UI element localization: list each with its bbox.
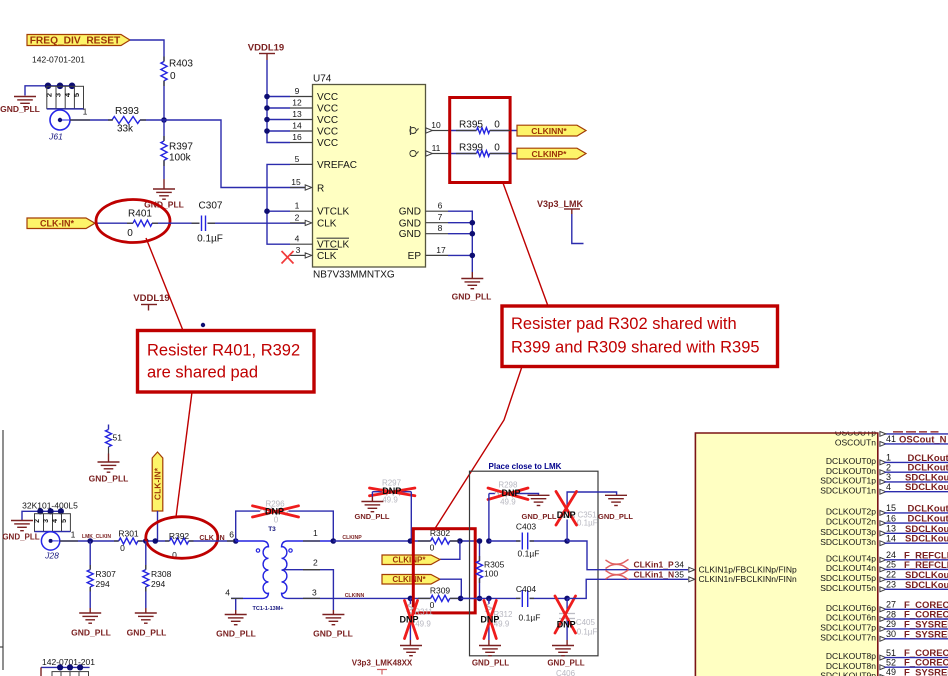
leader line right textbox to R302 rect <box>435 367 522 529</box>
wire R298 left down to CLKINP <box>488 494 490 542</box>
annotation rect around R302 R309 <box>413 529 475 613</box>
svg-text:DNP: DNP <box>399 615 418 625</box>
svg-text:GND_PLL: GND_PLL <box>598 512 633 521</box>
flag CLKINN* <box>517 125 586 136</box>
svg-text:17: 17 <box>436 245 446 255</box>
wire CLK-IN* flag down <box>157 511 159 541</box>
flag FREQ_DIV_RESET <box>27 35 130 47</box>
svg-text:41: 41 <box>886 434 896 444</box>
wire T3 pin4 to ground <box>235 598 237 614</box>
svg-text:16: 16 <box>292 132 302 142</box>
wire R403 to junction <box>163 81 165 120</box>
svg-text:SDCLKOUT3p: SDCLKOUT3p <box>820 527 876 537</box>
resistor R312 DNP <box>486 598 513 640</box>
svg-text:0: 0 <box>494 143 500 154</box>
capacitor C403 <box>489 522 567 559</box>
IC U75 LMK body <box>695 433 877 676</box>
LMK pin 2 DCLKOUT0n <box>826 463 948 476</box>
resistor 51 (cut at top) <box>106 425 123 447</box>
LMK pin 25 DCLKOUT4n <box>826 560 948 573</box>
svg-text:SDCLKOUT1n: SDCLKOUT1n <box>820 485 876 495</box>
node T3 pin1 junction <box>331 538 337 544</box>
wire R393 to junction <box>140 119 164 121</box>
svg-text:VCC: VCC <box>317 115 338 126</box>
svg-text:DNP: DNP <box>557 510 576 520</box>
net label LMK_CLKIN <box>82 534 111 540</box>
svg-text:SDCLKOUT7n: SDCLKOUT7n <box>820 632 876 642</box>
svg-text:DCLKOUT6p: DCLKOUT6p <box>826 603 876 613</box>
T3 pin number labels <box>225 528 318 598</box>
wire T3 pin2 to ground <box>283 570 333 615</box>
svg-text:CLKINN*: CLKINN* <box>531 126 567 136</box>
connector 32K101-400L5 label <box>22 501 78 511</box>
svg-text:10: 10 <box>431 120 441 130</box>
LMK pin 35 CLKIN1n <box>689 574 797 584</box>
svg-text:15: 15 <box>291 177 301 187</box>
X-out R297 <box>370 488 415 496</box>
svg-text:C405: C405 <box>576 618 596 627</box>
wire R401 to C307 <box>152 222 200 224</box>
wire R392 to T3 pin6 <box>189 540 236 542</box>
svg-text:142-0701-201: 142-0701-201 <box>32 55 85 65</box>
wire VREFAC tie bus <box>267 164 290 244</box>
svg-text:R301: R301 <box>118 528 139 538</box>
net label CLK_IN <box>199 535 224 542</box>
svg-text:CLKin1_P: CLKin1_P <box>634 560 674 570</box>
svg-text:34: 34 <box>675 560 685 570</box>
svg-text:VDDL19: VDDL19 <box>133 293 169 304</box>
svg-text:6: 6 <box>229 530 234 540</box>
ground GND_PLL right of U74 <box>452 279 492 302</box>
wire OSCOUTp net (cut) <box>885 431 948 434</box>
svg-text:SDCLKout1_N: SDCLKout1_N <box>905 482 948 493</box>
svg-text:LMK_CLKIN: LMK_CLKIN <box>82 534 111 540</box>
svg-text:C403: C403 <box>516 522 537 532</box>
ground GND_PLL T3 pin4 <box>216 615 256 639</box>
X-out C351 <box>556 492 577 526</box>
svg-text:CLK-IN*: CLK-IN* <box>40 219 74 229</box>
LMK pin 30 SDCLKOUT7n <box>820 629 948 642</box>
ground GND_PLL R312 <box>472 640 509 668</box>
box Place close to LMK <box>470 462 599 656</box>
ground GND_PLL at J28 <box>2 521 39 542</box>
wire CLKINN* flag tie <box>440 579 461 598</box>
resistor R305 <box>477 541 505 598</box>
wire bottom connector tie <box>41 667 90 676</box>
svg-text:F_SYSREF_N: F_SYSREF_N <box>904 629 948 640</box>
svg-text:CLKIN1p/FBCLKINp/FINp: CLKIN1p/FBCLKINp/FINp <box>699 565 798 575</box>
svg-text:SDCLKOUT5n: SDCLKOUT5n <box>820 583 876 593</box>
svg-text:GND_PLL: GND_PLL <box>547 659 584 668</box>
U74 left pin numbers <box>291 86 302 255</box>
crop mask over OSCOUTp <box>800 424 948 431</box>
LMK pin 29 SDCLKOUT7p <box>820 619 948 632</box>
svg-text:8: 8 <box>438 223 443 233</box>
pin 3 input arrow <box>305 253 312 258</box>
svg-text:DCLKOUT2n: DCLKOUT2n <box>826 517 876 527</box>
svg-text:U74: U74 <box>313 74 332 85</box>
node dots on connector pins <box>45 83 76 90</box>
wire VCC bus <box>267 60 290 143</box>
svg-text:Resister pad R302 shared with: Resister pad R302 shared with <box>511 315 737 333</box>
svg-text:OSCout_N: OSCout_N <box>899 434 947 445</box>
svg-text:DCLKOUT0n: DCLKOUT0n <box>826 466 876 476</box>
ground GND_PLL below R308 <box>127 608 167 638</box>
node dot CLK-IN* branch <box>153 538 159 544</box>
X-out C405 <box>555 596 576 633</box>
ground GND_PLL C405 <box>547 640 584 676</box>
svg-text:DCLKOUT4p: DCLKOUT4p <box>826 553 876 563</box>
pin name Qbar rotated <box>409 126 420 135</box>
pin 10 output arrow <box>426 128 433 133</box>
node dot R307 branch <box>87 538 93 544</box>
svg-text:C404: C404 <box>516 584 537 594</box>
ground GND_PLL below 51 <box>89 462 129 484</box>
svg-text:3: 3 <box>886 472 891 482</box>
svg-text:J28: J28 <box>44 551 59 561</box>
svg-text:1: 1 <box>886 453 891 463</box>
ground GND_PLL C351 <box>598 495 633 521</box>
flag CLKINP* <box>382 555 440 565</box>
svg-text:22: 22 <box>886 570 896 580</box>
svg-text:7: 7 <box>438 212 443 222</box>
svg-text:3: 3 <box>54 93 63 97</box>
svg-text:13: 13 <box>292 109 302 119</box>
wire CLKINP run <box>333 540 410 542</box>
wire R297 left to ground <box>371 492 373 502</box>
svg-text:CLKINN*: CLKINN* <box>392 575 426 584</box>
LMK pin 3 SDCLKOUT1p <box>820 472 948 485</box>
wire 51 to ground <box>108 447 110 462</box>
resistor R403 <box>161 59 193 83</box>
svg-text:0.1µF: 0.1µF <box>577 519 598 528</box>
diff pair symbol P <box>606 559 629 569</box>
svg-text:V3p3_LMK48XX: V3p3_LMK48XX <box>352 659 413 668</box>
svg-text:GND_PLL: GND_PLL <box>89 474 129 484</box>
capacitor C405 DNP <box>559 598 597 640</box>
wire flag to R403 bus <box>130 40 164 62</box>
svg-text:SDCLKOUT9p: SDCLKOUT9p <box>820 671 876 676</box>
svg-text:NB7V33MMNTXG: NB7V33MMNTXG <box>313 270 395 281</box>
flag CLKINN* <box>382 575 440 585</box>
svg-text:52: 52 <box>886 658 896 668</box>
wire R301 to R392 <box>138 540 170 542</box>
value label DNP C351 <box>557 510 576 520</box>
node C404 right dot <box>564 596 570 602</box>
svg-text:R392: R392 <box>169 531 190 541</box>
node CLKINN left dot <box>408 596 414 602</box>
svg-text:DCLKOUT0p: DCLKOUT0p <box>826 456 876 466</box>
wire R296 bypass <box>236 511 334 541</box>
svg-text:GND_PLL: GND_PLL <box>354 512 389 521</box>
svg-text:0: 0 <box>430 543 435 553</box>
flag CLK-IN* <box>27 218 95 229</box>
svg-text:GND: GND <box>399 207 421 218</box>
svg-text:2: 2 <box>45 93 54 97</box>
svg-text:2: 2 <box>886 463 891 473</box>
resistor R302 <box>410 528 479 553</box>
J28 pin numbers 2 3 4 5 <box>34 519 68 523</box>
svg-text:49.9: 49.9 <box>382 495 398 504</box>
svg-text:25: 25 <box>886 560 896 570</box>
svg-text:SDCLKOUT1p: SDCLKOUT1p <box>820 476 876 486</box>
LMK pin 15 DCLKOUT2p <box>826 503 948 516</box>
svg-text:15: 15 <box>886 503 896 513</box>
svg-text:5: 5 <box>295 154 300 164</box>
wire R297 right down to CLKINP <box>410 492 412 541</box>
svg-text:16: 16 <box>886 513 896 523</box>
annotation textbox right <box>502 306 778 367</box>
bottom connector housing (cut) <box>52 672 89 676</box>
node dot R308 branch <box>143 538 149 544</box>
svg-text:GND_PLL: GND_PLL <box>521 512 556 521</box>
svg-text:VREFAC: VREFAC <box>317 160 357 171</box>
svg-text:GND_PLL: GND_PLL <box>2 533 39 542</box>
svg-text:R397: R397 <box>169 142 193 153</box>
svg-text:1: 1 <box>313 528 318 538</box>
node R302 right dot <box>457 538 463 544</box>
LMK pin 28 DCLKOUT6n <box>826 609 948 622</box>
svg-text:4: 4 <box>295 234 300 244</box>
svg-text:GND_PLL: GND_PLL <box>71 628 111 638</box>
svg-text:1: 1 <box>83 107 88 117</box>
svg-text:DCLKOUT8p: DCLKOUT8p <box>826 651 876 661</box>
diff pair symbol N <box>606 570 629 580</box>
annotation ellipse around R401 <box>96 200 170 243</box>
svg-text:23: 23 <box>886 580 896 590</box>
wire pin11 to R399 <box>448 153 477 155</box>
svg-text:9: 9 <box>295 86 300 96</box>
svg-text:0: 0 <box>170 71 176 82</box>
wire pin10 to R395 <box>448 130 477 132</box>
svg-text:DNP: DNP <box>382 486 401 496</box>
svg-text:2: 2 <box>313 558 318 568</box>
value label DNP R298 <box>501 488 520 498</box>
node dots GND tie <box>470 220 476 258</box>
svg-text:DCLKOUT6n: DCLKOUT6n <box>826 613 876 623</box>
node R305 bottom <box>477 596 483 602</box>
U74 right pin names <box>399 207 422 262</box>
wire J61 to R393 <box>70 119 112 121</box>
resistor R401 <box>127 209 152 240</box>
pin 15 input arrow <box>305 185 312 190</box>
X-out R298 <box>488 488 528 500</box>
wire CLK-IN* to R401 <box>95 222 133 224</box>
svg-text:R399 and R309 shared with R39: R399 and R309 shared with R395 <box>511 339 760 357</box>
ground GND_PLL at J61 <box>0 97 40 115</box>
capacitor C307 <box>197 201 223 245</box>
ground GND_PLL below R397 <box>144 189 184 210</box>
LMK pin 23 SDCLKOUT5n <box>820 580 948 593</box>
svg-text:294: 294 <box>96 579 110 589</box>
pin name Q rotated <box>409 149 420 157</box>
svg-text:5: 5 <box>61 519 68 523</box>
svg-text:DNP: DNP <box>480 615 499 625</box>
LMK pin 24 DCLKOUT4p <box>826 550 948 563</box>
wire CLKINP* flag tie <box>440 541 460 559</box>
svg-text:CLK: CLK <box>317 218 337 229</box>
svg-text:0.1µF: 0.1µF <box>519 613 541 623</box>
LMK pin 41 OSCOUTn <box>835 434 948 447</box>
value label DNP C405 <box>557 620 576 630</box>
value label DNP R296 <box>265 507 284 517</box>
svg-text:GND_PLL: GND_PLL <box>0 104 40 114</box>
node junction R393/R403/R397 <box>161 117 167 123</box>
svg-text:0: 0 <box>494 120 500 131</box>
svg-text:CLKin1_N: CLKin1_N <box>634 570 675 580</box>
svg-text:are shared pad: are shared pad <box>147 364 258 382</box>
power V3p3_LMK <box>537 199 584 244</box>
sheet border left edge <box>0 430 3 670</box>
svg-text:5: 5 <box>72 93 81 97</box>
node dots bottom connector <box>57 664 83 670</box>
svg-text:C406: C406 <box>556 669 576 676</box>
svg-text:14: 14 <box>886 534 896 544</box>
U74 right pin stubs <box>426 131 449 256</box>
capacitor C404 <box>461 584 567 623</box>
svg-text:SDCLKOUT7p: SDCLKOUT7p <box>820 623 876 633</box>
LMK pin 27 DCLKOUT6p <box>826 600 948 613</box>
svg-text:0.1µF: 0.1µF <box>518 548 540 558</box>
LMK pin 13 SDCLKOUT3p <box>820 524 948 537</box>
svg-text:294: 294 <box>151 579 165 589</box>
svg-text:R: R <box>317 184 324 195</box>
svg-text:24: 24 <box>886 550 896 560</box>
svg-text:1: 1 <box>71 530 76 540</box>
svg-text:DCLKOUT2p: DCLKOUT2p <box>826 507 876 517</box>
annotation rect around R395 R399 <box>450 98 510 183</box>
svg-text:29: 29 <box>886 619 896 629</box>
flag CLK-IN* vertical <box>152 452 163 511</box>
svg-text:VCC: VCC <box>317 104 338 115</box>
U74 right pin numbers <box>431 120 446 255</box>
svg-text:R399: R399 <box>459 143 483 154</box>
annotation ellipse around R392 <box>146 517 218 559</box>
svg-text:SDCLKout3_N: SDCLKout3_N <box>905 534 948 545</box>
svg-text:VCC: VCC <box>317 127 338 138</box>
svg-text:51: 51 <box>886 648 896 658</box>
transformer T3 pin6 node <box>229 530 238 544</box>
wire J28 shield tie <box>22 511 61 520</box>
pin arrow OSCOUTp <box>880 432 886 437</box>
svg-text:R308: R308 <box>151 569 172 579</box>
svg-text:VCC: VCC <box>317 138 338 149</box>
svg-text:DNP: DNP <box>557 620 576 630</box>
node C404 left dot <box>486 596 492 602</box>
resistor R395 <box>459 120 500 134</box>
svg-text:3: 3 <box>296 245 301 255</box>
power VDDL19 top <box>248 43 284 61</box>
svg-text:49: 49 <box>886 667 896 676</box>
LMK chip border <box>695 433 877 676</box>
svg-text:GND: GND <box>399 218 421 229</box>
value label DNP R311 <box>399 615 418 625</box>
LMK pin 4 SDCLKOUT1n <box>820 482 948 495</box>
connector J61 pin housing <box>47 86 84 108</box>
svg-text:DNP: DNP <box>501 488 520 498</box>
svg-text:CLKINP*: CLKINP* <box>393 556 427 565</box>
flag CLKINP* <box>517 148 586 159</box>
svg-text:R309: R309 <box>430 586 451 596</box>
svg-text:13: 13 <box>886 524 896 534</box>
svg-text:DCLKOUT8n: DCLKOUT8n <box>826 661 876 671</box>
wire C307 to pin2 CLK <box>208 222 307 224</box>
svg-text:3: 3 <box>312 588 317 598</box>
pin 1 label J28 <box>71 530 76 540</box>
svg-text:J61: J61 <box>48 132 63 142</box>
wire CLKin1_P to LMK <box>567 541 688 570</box>
ground GND_PLL below R307 <box>71 608 111 638</box>
svg-text:14: 14 <box>292 121 302 131</box>
capacitor C351 DNP <box>559 492 617 541</box>
resistor R296 DNP <box>260 500 288 525</box>
svg-text:100: 100 <box>484 569 498 579</box>
wire CLKin1_N to LMK <box>567 579 688 598</box>
power VDDL19 left <box>133 293 169 311</box>
annotation textbox left <box>138 331 315 393</box>
resistor R297 DNP <box>372 479 411 505</box>
component terminal leads <box>60 57 534 599</box>
svg-text:VCC: VCC <box>317 92 338 103</box>
svg-text:0: 0 <box>127 228 133 239</box>
wire CLKINN run <box>288 597 411 599</box>
svg-text:OSCOUTn: OSCOUTn <box>835 438 876 448</box>
LMK pin 51 DCLKOUT8p <box>826 648 948 661</box>
connector J28 housing base <box>35 531 71 533</box>
node R298 tie dot <box>486 538 492 544</box>
wire J28 to R301 <box>60 540 119 542</box>
svg-text:DCLKOUT4n: DCLKOUT4n <box>826 563 876 573</box>
value label DNP R297 <box>382 486 401 496</box>
svg-text:T3: T3 <box>268 526 276 533</box>
connector J61 coax circle <box>48 110 70 142</box>
net label CLKin1_N 35 <box>634 570 685 580</box>
svg-text:28: 28 <box>886 609 896 619</box>
node dot VTCLK tie <box>264 208 270 214</box>
svg-text:35: 35 <box>675 570 685 580</box>
svg-text:51: 51 <box>113 433 123 443</box>
svg-text:33k: 33k <box>117 124 134 135</box>
svg-text:2: 2 <box>295 212 300 222</box>
leader line rect to right textbox <box>503 183 548 306</box>
svg-text:100k: 100k <box>169 153 192 164</box>
svg-text:GND: GND <box>399 229 421 240</box>
overline CLK pin3 <box>317 248 339 250</box>
svg-text:VDDL19: VDDL19 <box>248 43 284 54</box>
svg-text:R393: R393 <box>115 106 139 117</box>
node dots VCC bus <box>264 94 270 134</box>
transformer T3 windings <box>231 541 333 598</box>
svg-text:6: 6 <box>438 201 443 211</box>
svg-text:0.1µF: 0.1µF <box>577 628 598 637</box>
connector J61 housing base <box>47 108 84 110</box>
IC U74 body <box>313 74 426 281</box>
wire R399 to flag <box>490 153 517 155</box>
resistor R298 DNP <box>489 481 539 507</box>
svg-text:R403: R403 <box>169 59 193 70</box>
leader line R401 ellipse to left textbox <box>146 238 183 331</box>
LMK pin 1 DCLKOUT0p <box>826 453 948 466</box>
svg-text:11: 11 <box>432 143 441 153</box>
value label DNP R312 <box>480 615 499 625</box>
wire R397 to ground <box>163 120 165 189</box>
svg-text:CLK: CLK <box>317 251 337 262</box>
U74 left pin names <box>317 92 357 262</box>
svg-text:49.9: 49.9 <box>500 498 516 507</box>
svg-text:SDCLKout5_N: SDCLKout5_N <box>905 580 948 591</box>
resistor R392 <box>169 531 190 560</box>
X-out R312 <box>484 601 496 639</box>
